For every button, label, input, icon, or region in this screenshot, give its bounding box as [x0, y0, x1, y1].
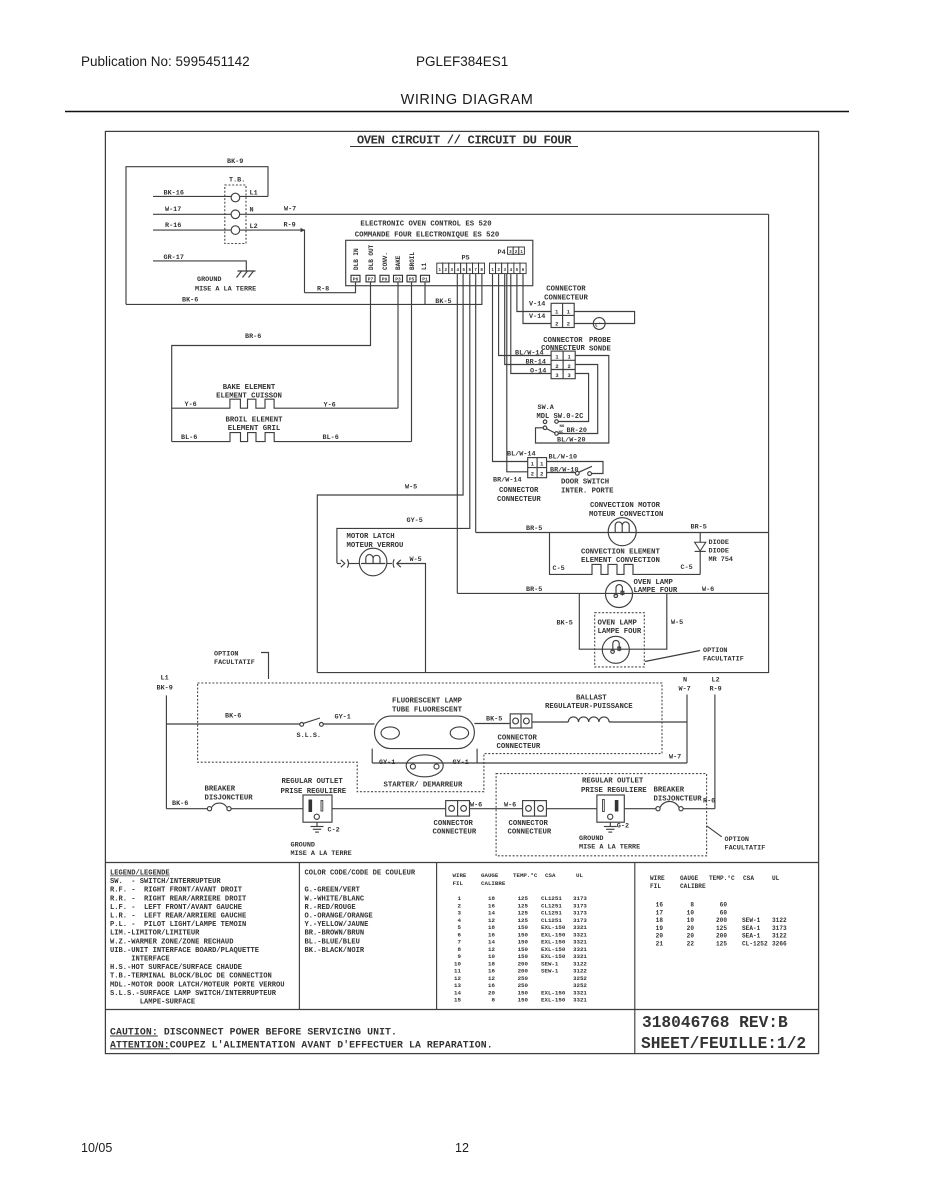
svg-text:16: 16: [656, 902, 664, 909]
svg-text:LIM.-LIMITOR/LIMITEUR: LIM.-LIMITOR/LIMITEUR: [110, 930, 200, 938]
svg-text:3: 3: [458, 910, 462, 917]
svg-text:2: 2: [567, 364, 570, 370]
svg-text:W-7: W-7: [679, 686, 691, 694]
3-pin connector 3x2: [551, 351, 575, 379]
probe loop wiring: [574, 312, 634, 324]
svg-text:G-2: G-2: [617, 822, 629, 830]
svg-text:3: 3: [567, 373, 570, 379]
wire R-16: [153, 222, 231, 230]
svg-text:125: 125: [518, 902, 529, 909]
svg-text:CONNECTEUR: CONNECTEUR: [433, 829, 477, 837]
EOC pin P3: [394, 275, 403, 282]
svg-text:DLB OUT: DLB OUT: [368, 244, 375, 270]
svg-text:CALIBRE: CALIBRE: [481, 880, 506, 887]
wire GY-5 from P5 to motor latch: [337, 274, 470, 563]
wire BK-6 to S.L.S.: [166, 713, 300, 725]
svg-text:INTERFACE: INTERFACE: [110, 956, 170, 964]
dashed option outline (outlet 2): [496, 774, 706, 856]
svg-text:TEMP.°C: TEMP.°C: [709, 875, 735, 882]
svg-text:CONNECTOR: CONNECTOR: [498, 734, 538, 742]
svg-text:7: 7: [458, 939, 462, 946]
svg-text:SEW-1: SEW-1: [541, 960, 559, 967]
svg-text:BK-6: BK-6: [182, 297, 198, 305]
svg-text:MOTEUR CONVECTION: MOTEUR CONVECTION: [589, 511, 663, 519]
wire BL/W-14 to door connector row1: [493, 274, 536, 462]
wire V-14 row1: [517, 274, 551, 312]
svg-text:3252: 3252: [573, 975, 587, 982]
N W-7 stub: [679, 677, 691, 763]
svg-text:Y.-YELLOW/JAUNE: Y.-YELLOW/JAUNE: [305, 921, 369, 929]
svg-text:150: 150: [518, 953, 529, 960]
svg-text:BROIL ELEMENT: BROIL ELEMENT: [226, 416, 284, 424]
wire BR-5 to oven lamp: [457, 586, 605, 594]
svg-text:20: 20: [687, 933, 695, 940]
svg-text:P9: P9: [382, 277, 388, 283]
svg-text:FIL: FIL: [650, 883, 661, 890]
svg-text:125: 125: [716, 940, 727, 947]
svg-text:16: 16: [488, 902, 495, 909]
svg-text:22: 22: [687, 940, 695, 947]
connector (ballast): [497, 714, 541, 751]
svg-text:CAUTION: DISCONNECT POWER BEFO: CAUTION: DISCONNECT POWER BEFORE SERVICI…: [110, 1027, 397, 1038]
svg-text:2: 2: [555, 364, 558, 370]
svg-text:NO: NO: [560, 425, 565, 429]
svg-text:ELEMENT GRIL: ELEMENT GRIL: [228, 425, 281, 433]
svg-text:1: 1: [531, 462, 534, 468]
probe connector 2x2: [551, 303, 574, 327]
svg-text:R-9: R-9: [284, 222, 296, 230]
wire to connector 2: [470, 802, 523, 810]
svg-text:ELEMENT CONVECTION: ELEMENT CONVECTION: [581, 557, 660, 565]
connector P4: [498, 247, 525, 257]
ground symbol (chassis): [195, 271, 256, 293]
T.B. terminal N: [231, 210, 240, 219]
svg-text:BK-5: BK-5: [557, 620, 573, 628]
svg-text:MISE A LA TERRE: MISE A LA TERRE: [579, 843, 640, 851]
svg-text:N: N: [250, 206, 254, 214]
motor latch: [337, 533, 422, 576]
svg-text:BL-6: BL-6: [181, 434, 197, 442]
starter loop: [372, 749, 687, 763]
wire BR-5 to convection motor: [476, 525, 610, 533]
svg-text:CL1251: CL1251: [541, 917, 562, 924]
svg-text:15: 15: [454, 997, 461, 1004]
svg-text:FACULTATIF: FACULTATIF: [703, 656, 744, 664]
svg-text:BK-6: BK-6: [172, 800, 188, 808]
ballast: [532, 694, 687, 722]
svg-text:12: 12: [488, 917, 495, 924]
svg-text:WIRING DIAGRAM: WIRING DIAGRAM: [401, 92, 534, 108]
svg-text:EXL-150: EXL-150: [541, 931, 566, 938]
wire BK-5 vertical drop: [435, 274, 457, 594]
svg-text:REGULATEUR-PUISSANCE: REGULATEUR-PUISSANCE: [545, 703, 633, 711]
svg-text:R-9: R-9: [710, 686, 722, 694]
svg-text:BK-5: BK-5: [435, 298, 451, 306]
svg-text:W-6: W-6: [504, 802, 516, 810]
svg-text:BR-6: BR-6: [245, 333, 261, 341]
wire W-6 to connector: [332, 802, 482, 810]
svg-text:BK-5: BK-5: [486, 715, 502, 723]
EOC pin P1: [421, 275, 430, 282]
wire BR/W-14 to door connector row2: [493, 274, 528, 485]
svg-text:19: 19: [656, 925, 664, 932]
svg-text:t˚: t˚: [595, 321, 602, 328]
svg-text:3: 3: [555, 373, 558, 379]
svg-text:SEW-1: SEW-1: [541, 968, 559, 975]
svg-text:60: 60: [720, 902, 728, 909]
wire BK-5 lamp to connector: [474, 715, 510, 723]
svg-text:SHEET/FEUILLE:1/2: SHEET/FEUILLE:1/2: [641, 1035, 806, 1053]
broil element: [172, 416, 412, 442]
svg-text:SW. - SWITCH/INTERRUPTEUR: SW. - SWITCH/INTERRUPTEUR: [110, 878, 221, 886]
wire GY-1 to fluorescent lamp: [323, 714, 374, 724]
optional oven lamp dashed box: [595, 613, 645, 667]
svg-text:20: 20: [488, 989, 495, 996]
svg-text:V-14: V-14: [529, 300, 545, 308]
svg-text:18: 18: [488, 924, 495, 931]
svg-text:OVEN LAMP: OVEN LAMP: [634, 579, 674, 587]
svg-text:CONV.: CONV.: [382, 252, 389, 270]
svg-text:O-14: O-14: [530, 367, 546, 375]
svg-text:Y-6: Y-6: [324, 401, 336, 409]
breaker (left): [166, 785, 253, 811]
svg-text:S.L.S.-SURFACE LAMP SWITCH/INT: S.L.S.-SURFACE LAMP SWITCH/INTERRUPTEUR: [110, 990, 277, 998]
diode MR 754: [695, 533, 733, 575]
svg-text:CONNECTOR: CONNECTOR: [434, 820, 474, 828]
svg-text:W-5: W-5: [671, 619, 683, 627]
svg-text:W-7: W-7: [284, 206, 296, 214]
svg-text:BK-16: BK-16: [164, 190, 184, 198]
svg-text:150: 150: [518, 939, 529, 946]
wire motor latch return to neutral: [398, 564, 426, 673]
svg-text:BK-6: BK-6: [225, 713, 241, 721]
svg-text:GROUND: GROUND: [197, 276, 221, 284]
svg-text:CONNECTOR: CONNECTOR: [509, 820, 549, 828]
svg-text:200: 200: [518, 960, 529, 967]
svg-text:CONNECTOR: CONNECTOR: [543, 337, 583, 345]
svg-text:GROUND: GROUND: [579, 835, 603, 843]
oven temperature probe: [589, 318, 612, 354]
svg-text:EXL-150: EXL-150: [541, 939, 566, 946]
svg-text:10/05: 10/05: [81, 1141, 112, 1155]
svg-text:OVEN CIRCUIT // CIRCUIT DU FOU: OVEN CIRCUIT // CIRCUIT DU FOUR: [357, 134, 572, 148]
option facultatif label (fluorescent): [214, 651, 269, 679]
svg-text:18: 18: [656, 917, 664, 924]
door switch: [547, 453, 615, 495]
svg-text:10: 10: [687, 909, 695, 916]
SW.A NO loop to row3: [558, 374, 588, 422]
regular outlet 2 (optional): [579, 778, 647, 852]
svg-text:REGULAR OUTLET: REGULAR OUTLET: [282, 778, 344, 786]
svg-text:200: 200: [716, 917, 727, 924]
svg-text:O.-ORANGE/ORANGE: O.-ORANGE/ORANGE: [305, 913, 373, 921]
svg-text:CSA: CSA: [545, 872, 556, 879]
svg-text:P5: P5: [462, 255, 470, 263]
svg-text:L2: L2: [712, 677, 720, 685]
part number block: [641, 1014, 806, 1053]
svg-text:BR/W-10: BR/W-10: [550, 466, 579, 474]
wire to L2 R-9 stub: [683, 677, 722, 809]
svg-text:GY-5: GY-5: [407, 517, 423, 525]
svg-text:C-2: C-2: [328, 827, 340, 835]
diagram title OVEN CIRCUIT // CIRCUIT DU FOUR: [350, 134, 578, 148]
svg-text:3266: 3266: [772, 940, 787, 947]
svg-text:CONNECTEUR: CONNECTEUR: [544, 294, 588, 302]
svg-text:GR-17: GR-17: [164, 254, 184, 262]
svg-text:LAMPE-SURFACE: LAMPE-SURFACE: [110, 999, 195, 1007]
svg-text:P4: P4: [498, 249, 506, 257]
svg-text:UL: UL: [576, 872, 583, 879]
connector W-6 (left): [433, 801, 477, 837]
wire V-14 row2: [523, 274, 551, 324]
svg-text:2: 2: [458, 902, 462, 909]
EOC pin P6: [351, 275, 360, 282]
svg-text:P1: P1: [422, 277, 428, 283]
svg-text:BR-14: BR-14: [526, 358, 546, 366]
wire W-5 from P5: [317, 274, 463, 673]
svg-text:CONVECTION MOTOR: CONVECTION MOTOR: [590, 502, 661, 510]
svg-text:BK-9: BK-9: [227, 158, 243, 166]
wire W-17: [153, 206, 231, 214]
svg-text:WIRE: WIRE: [650, 875, 665, 882]
svg-text:16: 16: [488, 931, 495, 938]
svg-text:3122: 3122: [573, 968, 587, 975]
svg-text:ELECTRONIC OVEN CONTROL ES 520: ELECTRONIC OVEN CONTROL ES 520: [360, 221, 491, 229]
svg-text:C-5: C-5: [681, 564, 693, 572]
connector W-6 (right): [508, 801, 552, 837]
wire L1 stub from terminal to loop: [240, 195, 268, 197]
svg-text:Y-6: Y-6: [185, 401, 197, 409]
svg-text:TEMP.°C: TEMP.°C: [513, 872, 538, 879]
svg-text:DISJONCTEUR: DISJONCTEUR: [654, 795, 703, 803]
svg-text:8: 8: [690, 902, 694, 909]
svg-text:11: 11: [454, 968, 461, 975]
terminal labels L1 N L2: [250, 189, 258, 230]
svg-text:3321: 3321: [573, 953, 587, 960]
svg-text:C-5: C-5: [553, 565, 565, 573]
svg-text:SEA-1: SEA-1: [742, 925, 761, 932]
svg-text:LEGEND/LEGENDE: LEGEND/LEGENDE: [110, 870, 170, 878]
svg-text:12: 12: [455, 1141, 469, 1155]
svg-text:17: 17: [656, 909, 664, 916]
outer schematic frame: [105, 131, 818, 1053]
wire to outlet 1: [231, 808, 303, 810]
neutral rail right side and bottom: [317, 214, 768, 672]
svg-text:S.L.S.: S.L.S.: [297, 732, 321, 740]
wire BR-20 NC loop to row2: [558, 365, 597, 436]
svg-text:EXL-150: EXL-150: [541, 946, 566, 953]
wire GR-17 ground lead: [153, 254, 246, 271]
connector P5 cells: [437, 263, 526, 274]
color code text: [305, 870, 416, 955]
regular outlet 1: [281, 778, 352, 858]
svg-text:125: 125: [518, 895, 529, 902]
svg-text:BAKE ELEMENT: BAKE ELEMENT: [223, 384, 276, 392]
breaker (right): [624, 787, 715, 811]
wire W-5 optional lamp return: [629, 593, 683, 649]
svg-text:P5: P5: [409, 277, 415, 283]
svg-text:P3: P3: [395, 277, 401, 283]
svg-text:CALIBRE: CALIBRE: [680, 883, 706, 890]
oven lamp 2 (optional): [602, 636, 629, 663]
svg-text:PRISE REGULIERE: PRISE REGULIERE: [581, 787, 647, 795]
svg-text:MISE A LA TERRE: MISE A LA TERRE: [195, 285, 256, 293]
svg-text:1: 1: [567, 355, 570, 361]
svg-text:W-17: W-17: [165, 206, 181, 214]
svg-text:1: 1: [458, 895, 462, 902]
wire W-6 lamp to neutral rail: [632, 586, 768, 594]
svg-text:10: 10: [454, 960, 461, 967]
svg-text:3321: 3321: [573, 939, 587, 946]
svg-text:12: 12: [488, 975, 495, 982]
svg-text:FIL: FIL: [453, 880, 464, 887]
svg-text:L1: L1: [161, 675, 169, 683]
svg-text:EXL-150: EXL-150: [541, 989, 566, 996]
wire BR-5 from P5 to convection motor: [475, 274, 477, 533]
svg-text:3321: 3321: [573, 946, 587, 953]
svg-text:CL1251: CL1251: [541, 910, 562, 917]
svg-text:12: 12: [454, 975, 461, 982]
svg-text:1: 1: [555, 355, 558, 361]
caution note: [110, 1027, 493, 1051]
EOC pin P9: [380, 275, 389, 282]
svg-text:L.F. - LEFT FRONT/AVANT GAUCH: L.F. - LEFT FRONT/AVANT GAUCHE: [110, 904, 242, 912]
svg-text:WIRE: WIRE: [453, 872, 467, 879]
svg-text:BL/W-10: BL/W-10: [549, 453, 578, 461]
svg-text:BROIL: BROIL: [409, 252, 416, 270]
wire from bake element to pin P3: [397, 282, 399, 408]
svg-text:L1: L1: [421, 262, 428, 270]
svg-text:CL-1252: CL-1252: [742, 940, 768, 947]
svg-text:3173: 3173: [573, 902, 587, 909]
svg-text:R-6: R-6: [703, 797, 715, 805]
svg-text:MDL.-MOTOR DOOR LATCH/MOTEUR P: MDL.-MOTOR DOOR LATCH/MOTEUR PORTE VERRO…: [110, 981, 285, 989]
wire BR-14 row2: [505, 274, 551, 367]
svg-text:125: 125: [518, 910, 529, 917]
switch SW.A labels: [537, 404, 585, 421]
svg-text:14: 14: [488, 939, 495, 946]
svg-text:14: 14: [454, 989, 461, 996]
svg-text:CONNECTEUR: CONNECTEUR: [497, 496, 541, 504]
svg-text:BREAKER: BREAKER: [654, 787, 685, 795]
svg-text:250: 250: [518, 982, 529, 989]
svg-text:3252: 3252: [573, 982, 587, 989]
legend band dividers: [105, 863, 819, 1054]
svg-text:W.-WHITE/BLANC: W.-WHITE/BLANC: [305, 895, 365, 903]
dashed option outline (fluorescent circuit): [198, 683, 662, 792]
electronic oven control EOC box: [346, 221, 533, 286]
svg-text:MISE A LA TERRE: MISE A LA TERRE: [291, 850, 352, 858]
svg-text:W-7: W-7: [669, 754, 681, 762]
wire BR-6 from pin P7 to elements branch: [172, 282, 371, 442]
svg-text:W-6: W-6: [702, 586, 714, 594]
svg-text:GROUND: GROUND: [291, 842, 315, 850]
svg-text:60: 60: [720, 909, 728, 916]
svg-text:4: 4: [458, 917, 462, 924]
switch SW.A contacts: [543, 420, 565, 436]
svg-text:1: 1: [540, 462, 543, 468]
svg-text:18: 18: [488, 895, 495, 902]
fluorescent lamp tube: [375, 698, 475, 749]
svg-text:200: 200: [716, 933, 727, 940]
svg-text:16: 16: [488, 968, 495, 975]
svg-text:ELEMENT CUISSON: ELEMENT CUISSON: [216, 392, 282, 400]
svg-text:L.R. - LEFT REAR/ARRIERE GAUC: L.R. - LEFT REAR/ARRIERE GAUCHE: [110, 913, 246, 921]
svg-text:LAMPE FOUR: LAMPE FOUR: [598, 628, 642, 636]
svg-text:150: 150: [518, 931, 529, 938]
svg-text:OPTION: OPTION: [703, 647, 727, 655]
svg-text:W-5: W-5: [405, 484, 417, 492]
svg-text:20: 20: [687, 925, 695, 932]
bake element: [172, 384, 398, 409]
wire to outlet 2: [546, 808, 597, 810]
option facultatif pointer (outlet 2): [707, 826, 766, 853]
header rule: [65, 111, 849, 113]
svg-text:GAUGE: GAUGE: [680, 875, 699, 882]
svg-text:STARTER/ DEMARREUR: STARTER/ DEMARREUR: [384, 781, 463, 789]
svg-text:PGLEF384ES1: PGLEF384ES1: [416, 54, 508, 69]
svg-text:P6: P6: [353, 277, 359, 283]
svg-text:P.L. - PILOT LIGHT/LAMPE TEMO: P.L. - PILOT LIGHT/LAMPE TEMOIN: [110, 921, 246, 929]
svg-text:3122: 3122: [573, 960, 587, 967]
svg-text:BR-5: BR-5: [691, 524, 707, 532]
wire gauge table 1: [453, 872, 588, 1004]
wire O-14 row3: [511, 274, 551, 376]
svg-text:COLOR CODE/CODE DE COULEUR: COLOR CODE/CODE DE COULEUR: [305, 870, 416, 878]
svg-text:BALLAST: BALLAST: [576, 694, 607, 702]
svg-text:G.-GREEN/VERT: G.-GREEN/VERT: [305, 887, 361, 895]
svg-text:16: 16: [488, 982, 495, 989]
svg-text:8: 8: [492, 997, 496, 1004]
svg-text:CL1251: CL1251: [541, 902, 562, 909]
svg-text:CONVECTION ELEMENT: CONVECTION ELEMENT: [581, 548, 660, 556]
svg-text:125: 125: [716, 925, 727, 932]
wire gauge table 2: [650, 875, 787, 947]
T.B. terminal L1: [231, 193, 240, 202]
switch S.L.S.: [297, 718, 324, 740]
convection element: [550, 533, 701, 575]
svg-text:9: 9: [458, 953, 462, 960]
svg-text:GAUGE: GAUGE: [481, 872, 499, 879]
svg-text:CONNECTOR: CONNECTOR: [546, 286, 586, 294]
svg-text:3122: 3122: [772, 917, 787, 924]
svg-text:T.B.-TERMINAL BLOCK/BLOC DE CO: T.B.-TERMINAL BLOCK/BLOC DE CONNECTION: [110, 973, 272, 981]
svg-text:21: 21: [656, 940, 664, 947]
svg-text:BR.-BROWN/BRUN: BR.-BROWN/BRUN: [305, 930, 365, 938]
svg-text:OVEN LAMP: OVEN LAMP: [598, 619, 638, 627]
wire BL/W-14 row1: [499, 274, 551, 358]
svg-text:ATTENTION:COUPEZ L'ALIMENTATIO: ATTENTION:COUPEZ L'ALIMENTATION AVANT D'…: [110, 1039, 493, 1050]
svg-text:INTER. PORTE: INTER. PORTE: [561, 487, 614, 495]
svg-text:SEA-1: SEA-1: [742, 933, 761, 940]
svg-text:PROBE: PROBE: [589, 337, 612, 345]
oven lamp 1: [606, 579, 678, 608]
svg-text:BL-6: BL-6: [323, 434, 339, 442]
svg-text:CONNECTOR: CONNECTOR: [499, 487, 539, 495]
EOC pin P5: [407, 275, 416, 282]
svg-text:125: 125: [518, 917, 529, 924]
svg-text:COMMANDE FOUR ELECTRONIQUE ES: COMMANDE FOUR ELECTRONIQUE ES 520: [355, 231, 500, 239]
svg-text:18: 18: [488, 960, 495, 967]
wire BR-5 motor to neutral rail: [636, 524, 769, 533]
svg-text:2: 2: [555, 321, 558, 327]
svg-text:GY-1: GY-1: [379, 759, 395, 767]
svg-text:150: 150: [518, 924, 529, 931]
svg-text:3321: 3321: [573, 931, 587, 938]
svg-text:10: 10: [687, 917, 695, 924]
svg-text:10: 10: [488, 953, 495, 960]
svg-text:H.S.-HOT SURFACE/SURFACE CHAUD: H.S.-HOT SURFACE/SURFACE CHAUDE: [110, 964, 242, 972]
